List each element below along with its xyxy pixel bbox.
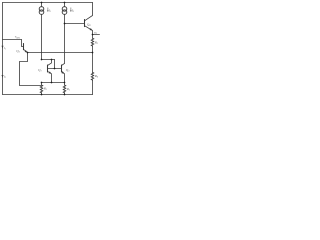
arrow current annotation lower left wire: [2, 75, 4, 78]
transistor Q4 top right: [65, 3, 93, 35]
node output stub vo: [93, 34, 100, 36]
node base tap Q4: [64, 23, 66, 25]
node output: [92, 34, 94, 36]
node emitter rail R1: [41, 82, 43, 84]
svg-text:i2: i2: [4, 75, 7, 80]
svg-text:R1: R1: [43, 87, 47, 92]
current source I2: [62, 3, 67, 64]
svg-text:I2: I2: [71, 8, 75, 13]
wire left vertical: [2, 3, 4, 95]
node mid wire right: [92, 52, 94, 54]
wire emitter rail: [42, 82, 65, 84]
wire collector rail: [42, 59, 55, 61]
node bottom rail R1: [41, 94, 43, 96]
svg-text:R4: R4: [94, 74, 99, 79]
arrow Q4 emitter: [90, 28, 93, 30]
node emitter rail Q3 R2: [64, 82, 66, 84]
node top rail I1: [41, 2, 43, 4]
wire mid horizontal: [28, 52, 93, 54]
emitter arrows: [2, 10, 93, 77]
junction dots: [27, 2, 94, 96]
svg-text:Q4: Q4: [87, 22, 91, 27]
current source I1: [39, 3, 44, 60]
node base rail center: [54, 68, 56, 70]
node emitter rail Q1: [51, 82, 53, 84]
node collector rail left: [41, 59, 43, 61]
wire riser to base rail: [54, 60, 56, 69]
node collector branch: [51, 59, 53, 61]
wire right vertical mid: [92, 53, 94, 73]
svg-text:Q1: Q1: [38, 68, 42, 73]
svg-text:R3: R3: [94, 40, 99, 45]
arrow I2 label: [70, 10, 71, 12]
svg-text:vBE2: vBE2: [15, 35, 21, 40]
wire bottom rail: [3, 94, 93, 96]
svg-text:R2: R2: [66, 87, 71, 92]
wire top rail: [3, 2, 93, 4]
resistor R4 right lower: [91, 72, 93, 94]
wire Q2 emitter hook down-left: [20, 53, 42, 86]
wire base rail mirror: [48, 68, 62, 70]
arrow I1 label: [47, 10, 48, 12]
arrow Q2 emitter: [25, 50, 28, 52]
node bottom rail R2: [64, 94, 66, 96]
node Q2 emitter: [27, 52, 29, 54]
transistor Q3 bottom right: [62, 63, 65, 82]
arrow current annotation upper left wire: [2, 46, 4, 49]
svg-text:vO: vO: [94, 30, 98, 35]
transistor Q1 bottom left: [48, 60, 52, 83]
arrow Q3 emitter: [62, 71, 65, 73]
labels: [4, 8, 99, 91]
svg-text:Q3: Q3: [66, 68, 70, 73]
transistor Q2 left middle diode-connected: [3, 40, 28, 53]
arrow Q1 emitter: [49, 71, 52, 73]
resistor R1 bottom left: [40, 83, 42, 95]
resistor R2 bottom right: [63, 83, 65, 95]
svg-text:I1: I1: [48, 8, 51, 13]
node top rail I2: [64, 2, 66, 4]
resistor R3 right upper: [91, 35, 93, 53]
svg-text:i1: i1: [4, 46, 6, 51]
svg-text:Q2: Q2: [16, 49, 20, 54]
